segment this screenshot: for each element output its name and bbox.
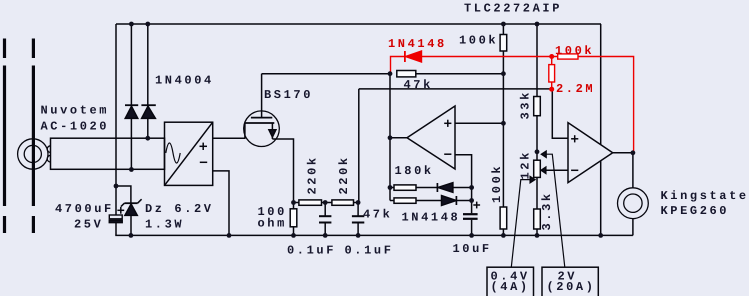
op-amp U1A (points left) [407, 106, 455, 169]
mains line L (dashed thick) [3, 39, 6, 234]
node: 220k middle [323, 200, 328, 205]
wire: U1A - input [455, 155, 472, 214]
resistor R4 180k [390, 185, 437, 190]
wire: 47k node down to U1A + input [502, 74, 504, 124]
transistor Q1 BS170 [244, 74, 294, 203]
svg-text:1N4148: 1N4148 [402, 211, 461, 225]
resistor R10 100k (red horizontal) [558, 54, 634, 152]
label box 2V (20A) [542, 267, 598, 296]
mains line N (dashed thick) [32, 39, 35, 234]
wire: top rail [116, 23, 601, 25]
wire: from red node down to U1B + input [552, 89, 568, 138]
resistor R9 33k [534, 97, 541, 161]
resistor R7 47k (top) [397, 71, 504, 77]
svg-text:(20A): (20A) [547, 280, 596, 294]
node: transformer top wire [145, 136, 150, 141]
svg-text:Kingstate: Kingstate [661, 189, 749, 203]
resistor R1 100 ohm [290, 203, 297, 236]
wire: left vertical from rail to C1 [115, 24, 117, 215]
node: rail c4 [469, 233, 474, 238]
potentiometer R12 12k [534, 160, 568, 209]
wire: vertical from mid line down to 220k junction [358, 89, 360, 203]
node: feedback top left [388, 185, 393, 190]
zener diode DZ1 6.2V [121, 199, 142, 235]
svg-text:100k: 100k [459, 34, 498, 48]
svg-text:100k: 100k [490, 164, 504, 203]
transformer T1 plug circle [18, 139, 51, 169]
node: transformer bottom wire [129, 167, 134, 172]
node: rail rectifier [227, 233, 232, 238]
node: rail zener [129, 233, 134, 238]
svg-text:0.1uF: 0.1uF [345, 244, 394, 258]
node: rail 100k [501, 233, 506, 238]
svg-text:220k: 220k [337, 155, 351, 194]
svg-text:4700uF: 4700uF [55, 202, 114, 216]
node: zener branch [114, 184, 119, 189]
node: rail c2 [323, 233, 328, 238]
svg-text:0.1uF: 0.1uF [287, 244, 336, 258]
diode D5 1N4148 (red, points left) [391, 51, 558, 73]
svg-text:BS170: BS170 [264, 88, 313, 102]
svg-text:180k: 180k [395, 164, 434, 178]
capacitor C2 0.1uF (left) [319, 203, 331, 236]
node: red junction top [549, 54, 554, 59]
node: rail x537 [535, 22, 540, 27]
diode D3 1N4148 (points left) [437, 183, 471, 193]
resistor R11 2.2M (red vertical) [549, 57, 555, 90]
node: feedback top right [469, 185, 474, 190]
capacitor C4 10uF [463, 202, 480, 236]
node: U1A output [388, 135, 393, 140]
wire: U1A + input [455, 122, 503, 124]
resistor R8 100k (top vertical) [500, 24, 507, 74]
node: feedback bottom right [469, 198, 474, 203]
svg-text:KPEG260: KPEG260 [661, 204, 730, 218]
svg-text:Nuvotem: Nuvotem [41, 104, 110, 118]
svg-text:47k: 47k [363, 208, 392, 222]
svg-text:12k: 12k [519, 150, 533, 179]
wire: Q1 source line with 220k chain [0, 0, 1, 1]
node: U1B output [631, 150, 636, 155]
resistor R6 100k (lower vertical) [500, 123, 507, 235]
speaker LS1 [618, 153, 649, 236]
wire: U1A output stub [390, 137, 407, 139]
wire: Q1 drain to 47k node [262, 73, 390, 75]
callout arrow 0.4V setting [511, 177, 535, 268]
capacitor C3 0.1uF (right) [352, 203, 364, 236]
node: rail c3 [356, 233, 361, 238]
node: rail 3.3k [535, 233, 540, 238]
svg-text:ohm: ohm [258, 217, 287, 231]
svg-text:(4A): (4A) [491, 280, 530, 294]
node: 220k right [356, 200, 361, 205]
node: rail 100ohm [291, 233, 296, 238]
wire: long vertical from top rail to bottom rail (behind U1B) [600, 24, 602, 235]
svg-text:AC-1020: AC-1020 [41, 120, 110, 134]
node: 47k right [501, 71, 506, 76]
svg-text:1N4148: 1N4148 [388, 37, 447, 51]
label box 0.4V (4A) [487, 267, 534, 296]
node: 220k left [291, 200, 296, 205]
wire: horizontal mid line from 220k junction to red node [359, 88, 552, 90]
svg-text:3.3k: 3.3k [540, 191, 554, 230]
resistor R5 47k (lower) [390, 198, 442, 203]
svg-text:2.2M: 2.2M [556, 82, 595, 96]
svg-text:47k: 47k [404, 78, 433, 92]
node: red junction bottom [549, 87, 554, 92]
red network [391, 51, 634, 152]
wire: vertical U1A output chain [389, 74, 391, 201]
rectifier BR1 box [165, 122, 213, 185]
diode D4 1N4148 (points right) [442, 196, 472, 206]
diode D1 1N4004 (left) [125, 24, 138, 170]
wire: U1B output [613, 152, 633, 154]
label T1 name [0, 0, 1, 1]
wire: zener branch from node [116, 186, 131, 203]
resistor R13 3.3k [534, 209, 541, 235]
node: 47k left [388, 71, 393, 76]
node: rail x503 [501, 22, 506, 27]
wire: bottom rail [115, 234, 633, 236]
wire: rectifier - output down to bottom rail [213, 171, 229, 236]
transformer T1 cable rectangle [51, 138, 165, 169]
callout arrow 2V setting [542, 151, 565, 267]
svg-text:1.3W: 1.3W [145, 218, 184, 232]
svg-text:25V: 25V [74, 218, 103, 232]
op-amp U1B (points right) [568, 123, 613, 183]
capacitor C1 4700uF 25V [109, 207, 124, 236]
resistor R2 220k (left) [294, 200, 332, 205]
svg-text:1N4004: 1N4004 [155, 74, 214, 88]
svg-text:10uF: 10uF [453, 242, 492, 256]
diode D2 1N4004 (right) [141, 24, 155, 138]
svg-text:TLC2272AIP: TLC2272AIP [464, 2, 562, 16]
node: rail x148 [145, 22, 150, 27]
resistor R3 220k (right) [332, 200, 359, 205]
node: U1A + input [501, 121, 506, 126]
svg-text:Dz 6.2V: Dz 6.2V [145, 202, 214, 216]
svg-text:33k: 33k [519, 90, 533, 119]
node: rail x600 [598, 233, 603, 238]
svg-text:220k: 220k [306, 155, 320, 194]
svg-text:100k: 100k [555, 44, 594, 58]
wire: rectifier + output to Q1 gate [213, 137, 245, 139]
node: pot top [535, 149, 540, 154]
node: rail x131 [129, 22, 134, 27]
wire: vertical 33k/pot chain [536, 24, 538, 97]
